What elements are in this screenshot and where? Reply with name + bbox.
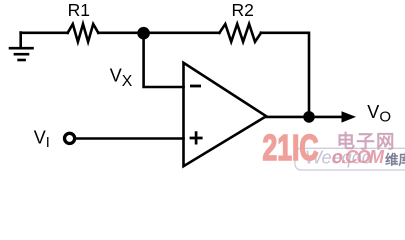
svg-text:VX: VX bbox=[110, 66, 133, 91]
resistor R1 bbox=[68, 24, 99, 42]
wire node A to R2 bbox=[144, 31, 220, 34]
op-amp minus sign bbox=[190, 85, 201, 88]
wire ground to R1 bbox=[21, 31, 68, 34]
svg-text:R2: R2 bbox=[232, 0, 254, 20]
svg-text:维库: 维库 bbox=[385, 152, 405, 168]
wire node A down to inverting input bbox=[144, 33, 184, 87]
input terminal circle bbox=[65, 133, 75, 143]
resistor R2 bbox=[219, 24, 261, 42]
op-amp plus sign bbox=[190, 131, 203, 144]
wire R2 to corner down to output node bbox=[261, 33, 309, 117]
svg-text:21IC: 21IC bbox=[263, 127, 319, 168]
svg-text:o.COM: o.COM bbox=[332, 147, 385, 167]
ground bbox=[10, 33, 33, 61]
svg-text:VO: VO bbox=[367, 102, 391, 126]
svg-text:R1: R1 bbox=[68, 0, 90, 20]
output node dot bbox=[303, 111, 315, 123]
svg-text:VI: VI bbox=[34, 128, 50, 151]
watermark weeqoo box bbox=[295, 148, 405, 170]
arrowhead of output arrow bbox=[342, 111, 357, 122]
node A junction dot bbox=[137, 27, 150, 40]
wire R1 to node A bbox=[98, 31, 143, 34]
op-amp U1 bbox=[184, 63, 267, 166]
wire terminal to non-inverting input bbox=[77, 137, 183, 140]
wire op-amp output to output node bbox=[266, 116, 309, 119]
wire output node to arrow bbox=[309, 116, 343, 119]
